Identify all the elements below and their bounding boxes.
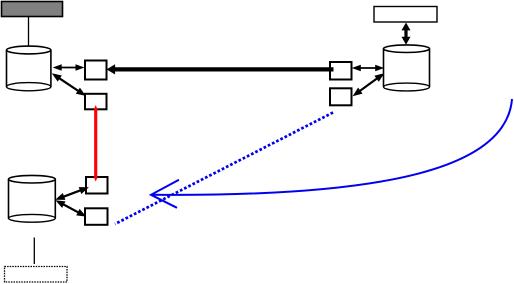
box B1 (85, 61, 107, 80)
wire double arrow DB1 to B2 diagonal (52, 73, 86, 96)
vertical double arrow rect to DB2 (402, 23, 411, 45)
dashed rect bottom (5, 267, 68, 283)
box B4 (330, 88, 352, 105)
blue dotted line B4 to B6 area (115, 113, 333, 225)
red arrow B5 to B2 (94, 105, 98, 182)
wire double arrow DB2 to B4 diagonal (353, 73, 385, 96)
wire double arrow DB1 to B1 (53, 64, 85, 71)
database cylinder DB1 (7, 46, 51, 91)
wire double arrow B3 to DB2 (352, 65, 384, 72)
box B5 (86, 177, 108, 194)
blue curved arrow (151, 99, 512, 208)
box B2 (85, 94, 107, 110)
thick black arrow into B1 from B3 (107, 64, 334, 74)
wire DB3 to dashed rect (33, 238, 35, 265)
white rect top right (374, 7, 437, 23)
wire double arrow DB3 to B6 (55, 200, 86, 216)
database cylinder DB3 (9, 175, 56, 222)
wire double arrow DB3 to B5 (55, 187, 89, 200)
gray header rect (2, 2, 63, 17)
box B6 (85, 208, 108, 225)
box B3 (330, 62, 352, 80)
database cylinder DB2 (384, 45, 430, 91)
wire gray rect to cylinder DB1 (28, 17, 30, 47)
